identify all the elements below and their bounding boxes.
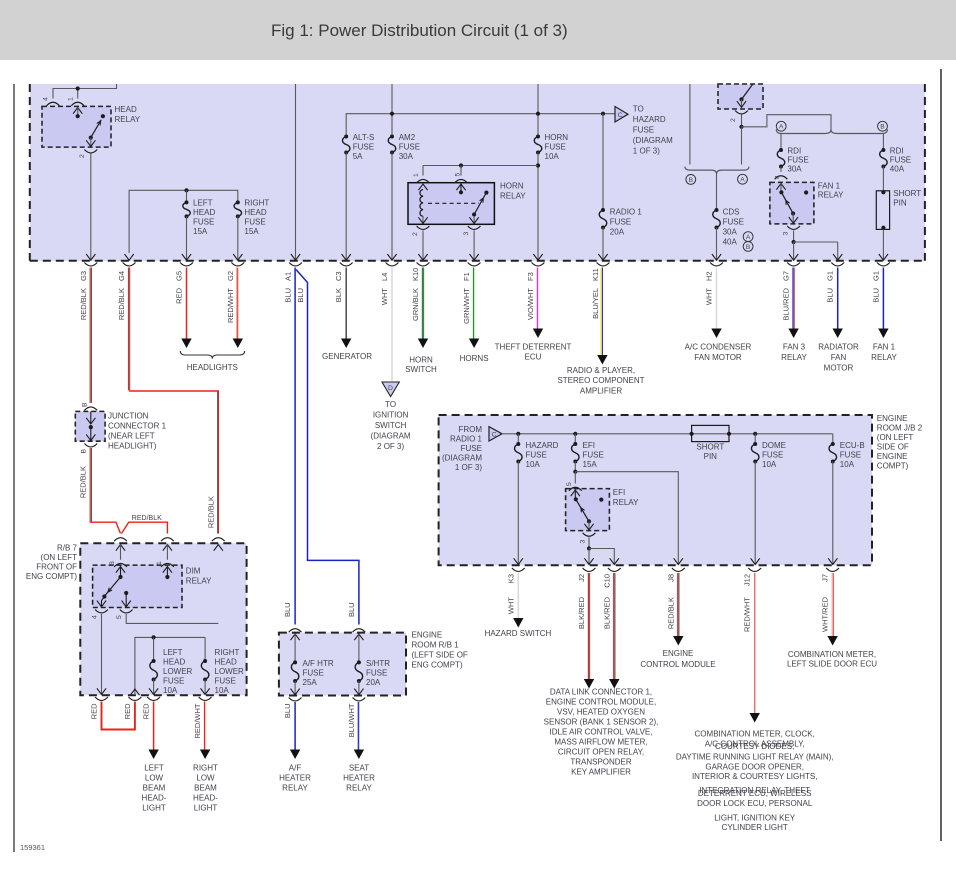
svg-text:SEAT: SEAT [349, 764, 369, 773]
fuse DOME FUSE 10A [754, 434, 756, 444]
wire G5 RED to headlights [186, 268, 188, 339]
svg-text:BEAM: BEAM [194, 784, 217, 793]
svg-text:B: B [746, 244, 751, 251]
svg-text:DAYTIME RUNNING LIGHT RELAY (M: DAYTIME RUNNING LIGHT RELAY (MAIN), [676, 753, 834, 762]
svg-text:RED/BLK: RED/BLK [206, 496, 215, 528]
svg-text:ROOM J/B 2: ROOM J/B 2 [877, 424, 923, 433]
svg-text:RELAY: RELAY [115, 115, 141, 124]
svg-text:BLU/WHT: BLU/WHT [347, 703, 356, 737]
svg-text:RIGHT: RIGHT [215, 648, 240, 657]
fuse CDS FUSE 30A/40A [716, 174, 718, 210]
horn relay switch [472, 212, 476, 216]
svg-text:Fig 1: Power Distribution Circ: Fig 1: Power Distribution Circuit (1 of … [271, 21, 568, 40]
left page border [13, 84, 15, 852]
wire J12 RED/WHT [754, 573, 756, 713]
svg-text:BLU: BLU [284, 288, 293, 303]
wire K11 BLU/YEL to radio [600, 268, 602, 356]
svg-text:D: D [388, 385, 393, 392]
svg-text:10A: 10A [840, 460, 855, 469]
svg-text:30A: 30A [787, 165, 802, 174]
relay EFI RELAY [566, 489, 610, 531]
svg-text:3: 3 [783, 232, 790, 236]
svg-text:RED: RED [175, 287, 184, 303]
svg-text:FUSE: FUSE [215, 677, 236, 686]
wire efi out split [588, 537, 590, 548]
svg-text:ECU-B: ECU-B [840, 441, 865, 450]
svg-text:RED: RED [90, 703, 99, 719]
svg-text:FAN 1: FAN 1 [818, 182, 841, 191]
svg-text:FAN MOTOR: FAN MOTOR [694, 353, 742, 362]
svg-text:TO: TO [385, 400, 396, 409]
svg-text:SIDE OF: SIDE OF [877, 443, 909, 452]
svg-text:159361: 159361 [20, 843, 45, 852]
svg-text:J12: J12 [743, 574, 752, 586]
svg-text:HEAD: HEAD [163, 658, 185, 667]
svg-text:LEFT: LEFT [163, 648, 183, 657]
fuse LEFT HEAD FUSE 15A [183, 202, 191, 216]
svg-text:LEFT SLIDE DOOR ECU: LEFT SLIDE DOOR ECU [787, 660, 877, 669]
svg-text:RADIO & PLAYER,: RADIO & PLAYER, [567, 366, 635, 375]
wire J2 BLK/RED [587, 573, 589, 679]
svg-text:4: 4 [774, 175, 781, 179]
svg-text:3: 3 [109, 561, 116, 565]
fuse RIGHT HEAD LOWER FUSE 10A [204, 637, 206, 661]
svg-text:BEAM: BEAM [143, 784, 166, 793]
top power-distribution box [30, 84, 925, 261]
wire A1 feed [295, 84, 297, 260]
svg-text:30A: 30A [723, 228, 738, 237]
svg-text:LIGHT: LIGHT [194, 804, 218, 813]
svg-text:FUSE: FUSE [163, 677, 184, 686]
svg-text:ENGINE: ENGINE [663, 649, 694, 658]
wire fan1 out split [793, 231, 795, 243]
svg-text:ENGINE: ENGINE [877, 452, 908, 461]
svg-text:FUSE: FUSE [723, 218, 744, 227]
svg-text:FUSE: FUSE [890, 156, 911, 165]
svg-text:DATA LINK CONNECTOR 1,: DATA LINK CONNECTOR 1, [550, 688, 652, 697]
fuse RIGHT HEAD FUSE 15A [234, 202, 242, 216]
svg-text:10A: 10A [762, 460, 777, 469]
svg-text:TO: TO [633, 105, 644, 114]
svg-text:COMBINATION METER,: COMBINATION METER, [788, 650, 876, 659]
svg-text:MASS AIRFLOW METER,: MASS AIRFLOW METER, [554, 738, 647, 747]
svg-text:RIGHT: RIGHT [244, 199, 269, 208]
svg-text:10A: 10A [545, 152, 560, 161]
svg-text:COMBINATION METER, CLOCK,: COMBINATION METER, CLOCK, [695, 730, 815, 739]
svg-text:B: B [689, 177, 694, 184]
svg-text:RED/WHT: RED/WHT [743, 597, 752, 632]
svg-text:20A: 20A [610, 228, 625, 237]
short pin (J/B2) [692, 425, 729, 441]
right page border [940, 69, 942, 841]
wire G4 RED/BLK to R/B7 [128, 268, 130, 391]
relay DIM RELAY [93, 565, 182, 607]
dim relay switch [104, 577, 120, 596]
wire L4 WHT to ignition switch [391, 268, 393, 382]
svg-text:2: 2 [412, 232, 419, 236]
svg-text:LEFT: LEFT [193, 199, 213, 208]
svg-text:GRN/WHT: GRN/WHT [462, 288, 471, 324]
svg-text:DIM: DIM [186, 567, 201, 576]
svg-text:JUNCTION: JUNCTION [108, 412, 149, 421]
svg-text:BLK: BLK [334, 288, 343, 302]
svg-text:INTERIOR & COURTESY LIGHTS,: INTERIOR & COURTESY LIGHTS, [692, 772, 818, 781]
svg-text:FUSE: FUSE [610, 218, 631, 227]
svg-text:G5: G5 [175, 271, 184, 281]
svg-text:FUSE: FUSE [353, 143, 374, 152]
svg-text:RED/BLK: RED/BLK [78, 466, 87, 498]
wire step to RDI brace [742, 115, 832, 130]
svg-text:HEAD: HEAD [244, 208, 266, 217]
svg-text:LEFT: LEFT [144, 764, 164, 773]
wire G3 RED/BLK to junction connector [89, 268, 91, 404]
svg-text:CDS: CDS [723, 208, 740, 217]
wire main bus [346, 114, 615, 136]
wire dim pin5 to third pin [126, 614, 218, 623]
wire K10 GRN/BLK to horn switch [421, 268, 423, 339]
svg-text:SENSOR (BANK 1 SENSOR 2),: SENSOR (BANK 1 SENSOR 2), [544, 718, 659, 727]
svg-text:RED: RED [142, 703, 151, 719]
svg-text:FAN: FAN [831, 353, 847, 362]
svg-text:B: B [880, 124, 885, 131]
ENGINE ROOM R/B 1 box [279, 633, 406, 696]
svg-text:10A: 10A [526, 460, 541, 469]
connector into R/B7 [116, 545, 125, 551]
svg-text:RELAY: RELAY [186, 577, 212, 586]
wire BLU/WHT to seat heater relay [357, 702, 359, 750]
wire horn relay feed [423, 165, 538, 167]
fuse A/F HTR FUSE 25A [291, 662, 299, 681]
svg-text:40A: 40A [890, 165, 905, 174]
svg-text:1 OF 3): 1 OF 3) [633, 147, 660, 156]
svg-text:3: 3 [463, 232, 470, 236]
wire J7 WHT/RED to combination meter [831, 573, 833, 636]
svg-text:BLK/RED: BLK/RED [602, 596, 611, 629]
svg-text:FAN 3: FAN 3 [783, 343, 806, 352]
wire J8 RED/BLK to engine control module [677, 573, 679, 636]
svg-text:ROOM R/B 1: ROOM R/B 1 [412, 641, 460, 650]
svg-text:HORN: HORN [545, 133, 569, 142]
wire RED/WHT to right low beam [204, 702, 206, 750]
svg-text:RED/BLK: RED/BLK [117, 288, 126, 320]
svg-text:ENGINE: ENGINE [877, 414, 908, 423]
brace CDS A/B merge [685, 167, 749, 174]
svg-text:(ON LEFT: (ON LEFT [41, 553, 78, 562]
svg-text:DETERRENT ECU, WIRELESS: DETERRENT ECU, WIRELESS [698, 789, 812, 798]
svg-text:BLU/RED: BLU/RED [782, 287, 791, 320]
svg-text:C10: C10 [602, 574, 611, 588]
svg-text:2: 2 [79, 154, 86, 158]
pin 2 of partial relay [741, 115, 743, 127]
svg-text:RDI: RDI [787, 147, 801, 156]
svg-text:RED/BLK: RED/BLK [132, 515, 162, 522]
svg-text:LOWER: LOWER [215, 667, 245, 676]
svg-text:LIGHT: LIGHT [142, 804, 166, 813]
svg-text:15A: 15A [193, 227, 208, 236]
svg-text:BLU: BLU [826, 288, 835, 303]
junction connector JUNCTION CONNECTOR 1 [75, 411, 105, 441]
svg-text:LOW: LOW [145, 774, 164, 783]
svg-text:ENG COMPT): ENG COMPT) [26, 572, 77, 581]
svg-text:CIRCUIT OPEN RELAY,: CIRCUIT OPEN RELAY, [558, 748, 644, 757]
svg-text:RELAY: RELAY [613, 498, 639, 507]
svg-text:A: A [779, 124, 784, 131]
wire G1 BLU to radiator fan motor [837, 268, 839, 330]
wire CDS feeds [689, 84, 691, 165]
svg-text:H2: H2 [705, 271, 714, 281]
svg-text:GRN/BLK: GRN/BLK [411, 288, 420, 321]
wire H2 WHT to a/c condenser fan motor [716, 268, 718, 330]
svg-text:15A: 15A [244, 227, 259, 236]
svg-text:IGNITION: IGNITION [373, 411, 409, 420]
svg-text:HAZARD: HAZARD [526, 441, 559, 450]
svg-text:1 OF 3): 1 OF 3) [455, 463, 482, 472]
svg-text:5: 5 [455, 173, 462, 177]
svg-text:HEADLIGHT): HEADLIGHT) [108, 442, 157, 451]
svg-text:RELAY: RELAY [781, 353, 807, 362]
svg-text:J8: J8 [666, 574, 675, 582]
svg-text:4: 4 [43, 97, 50, 101]
svg-text:G7: G7 [782, 271, 791, 281]
svg-text:FUSE: FUSE [633, 126, 654, 135]
svg-text:RELAY: RELAY [346, 784, 372, 793]
svg-text:SHORT: SHORT [696, 443, 724, 452]
svg-text:A/F HTR: A/F HTR [303, 659, 334, 668]
svg-text:FROM: FROM [458, 425, 482, 434]
svg-text:DOOR LOCK ECU, PERSONAL: DOOR LOCK ECU, PERSONAL [697, 799, 813, 808]
connector into R/B7 [163, 545, 172, 551]
svg-text:(ON LEFT: (ON LEFT [877, 433, 914, 442]
svg-text:FAN 1: FAN 1 [873, 343, 896, 352]
svg-text:4: 4 [92, 615, 99, 619]
svg-text:RED/BLK: RED/BLK [79, 288, 88, 320]
svg-text:LOW: LOW [196, 774, 215, 783]
svg-text:HEAD: HEAD [193, 208, 215, 217]
svg-text:HORN: HORN [409, 356, 433, 365]
svg-text:G1: G1 [871, 271, 880, 281]
svg-text:CONTROL MODULE: CONTROL MODULE [640, 660, 715, 669]
svg-text:BLU: BLU [347, 602, 356, 617]
relay HEAD RELAY [42, 106, 111, 147]
svg-text:2: 2 [730, 118, 737, 122]
svg-text:20A: 20A [366, 678, 381, 687]
svg-text:F1: F1 [462, 272, 471, 281]
svg-text:1: 1 [156, 561, 163, 565]
svg-text:GARAGE DOOR OPENER,: GARAGE DOOR OPENER, [705, 763, 804, 772]
svg-text:RELAY: RELAY [500, 192, 526, 201]
efi relay pin 5 [574, 472, 576, 484]
fuse AM2 FUSE 30A [388, 137, 396, 153]
svg-text:WHT: WHT [506, 597, 515, 614]
svg-text:RELAY: RELAY [282, 784, 308, 793]
svg-text:DOME: DOME [762, 441, 786, 450]
svg-text:B: B [81, 449, 88, 454]
svg-text:SWITCH: SWITCH [375, 421, 407, 430]
svg-text:L4: L4 [380, 273, 389, 281]
svg-text:EFI: EFI [583, 441, 595, 450]
svg-text:WHT: WHT [380, 288, 389, 305]
svg-text:25A: 25A [303, 678, 318, 687]
svg-text:ECU: ECU [525, 353, 542, 362]
svg-text:COMPT): COMPT) [877, 462, 909, 471]
svg-text:(DIAGRAM: (DIAGRAM [633, 136, 673, 145]
svg-text:10A: 10A [163, 686, 178, 695]
svg-text:AMPLIFIER: AMPLIFIER [580, 387, 622, 396]
wire K3 WHT to hazard switch [517, 573, 519, 618]
svg-text:FUSE: FUSE [193, 218, 214, 227]
svg-text:R/B 7: R/B 7 [57, 544, 78, 553]
fuse ECU-B FUSE 10A [829, 444, 837, 462]
svg-text:RADIO 1: RADIO 1 [610, 208, 643, 217]
svg-text:K10: K10 [411, 268, 420, 281]
svg-text:G2: G2 [226, 271, 235, 281]
fuse HAZARD FUSE 10A [517, 434, 519, 444]
svg-text:ENGINE CONTROL MODULE,: ENGINE CONTROL MODULE, [546, 698, 656, 707]
wire A1 BLU pair split [294, 268, 296, 625]
connector triangle C from radio 1 fuse [489, 427, 502, 441]
svg-text:C3: C3 [334, 271, 343, 281]
svg-text:RIGHT: RIGHT [193, 764, 218, 773]
R/B 7 box [80, 543, 246, 695]
wire J/B2 bus [502, 433, 833, 435]
svg-text:(NEAR LEFT: (NEAR LEFT [108, 432, 155, 441]
fuse ALT-S FUSE 5A [342, 137, 350, 153]
svg-text:HAZARD SWITCH: HAZARD SWITCH [485, 629, 552, 638]
svg-text:SHORT: SHORT [893, 189, 921, 198]
wire pin2 to G3 [90, 154, 92, 261]
wire dim pin4 down [101, 614, 103, 695]
svg-text:K3: K3 [506, 574, 515, 583]
wire G2 RED/WHT to headlights [236, 268, 238, 339]
svg-text:5: 5 [566, 482, 573, 486]
svg-text:A/C CONDENSER: A/C CONDENSER [685, 343, 752, 352]
svg-text:FUSE: FUSE [399, 143, 420, 152]
svg-text:RDI: RDI [890, 147, 904, 156]
svg-text:KEY AMPLIFIER: KEY AMPLIFIER [571, 768, 631, 777]
svg-text:A: A [740, 177, 745, 184]
svg-text:C: C [492, 432, 497, 439]
svg-text:B: B [82, 402, 89, 407]
svg-text:PIN: PIN [893, 199, 907, 208]
svg-text:RELAY: RELAY [818, 191, 844, 200]
svg-text:HEAD-: HEAD- [142, 794, 167, 803]
svg-text:HORNS: HORNS [460, 354, 489, 363]
svg-text:FUSE: FUSE [244, 218, 265, 227]
svg-text:FUSE: FUSE [366, 669, 387, 678]
svg-text:VIO/WHT: VIO/WHT [526, 288, 535, 320]
svg-text:GENERATOR: GENERATOR [322, 352, 372, 361]
svg-text:IDLE AIR CONTROL VALVE,: IDLE AIR CONTROL VALVE, [550, 728, 653, 737]
wire junction to R/B7 pin [89, 448, 91, 523]
svg-text:FUSE: FUSE [583, 451, 604, 460]
fuse RDI FUSE 40A [882, 134, 884, 151]
wire C10 BLK/RED [613, 573, 615, 679]
wire head-relay top bus [53, 84, 117, 99]
horn relay pin 3 [422, 231, 424, 261]
svg-text:ENGINE: ENGINE [412, 631, 443, 640]
svg-text:BLU: BLU [871, 288, 880, 303]
wire RED/BLK link to second pin [122, 522, 168, 533]
svg-text:FUSE: FUSE [787, 156, 808, 165]
svg-text:HEATER: HEATER [279, 774, 311, 783]
svg-text:HEATER: HEATER [343, 774, 375, 783]
svg-text:HEAD: HEAD [215, 658, 237, 667]
svg-text:WHT/RED: WHT/RED [821, 596, 830, 632]
wire G1 BLU to fan 1 relay [882, 268, 884, 330]
wire G7 BLU/RED to fan 3 relay [792, 268, 794, 330]
svg-text:3: 3 [580, 540, 587, 544]
wire C3 BLK to generator [345, 268, 347, 339]
svg-text:LIGHT, IGNITION KEY: LIGHT, IGNITION KEY [714, 814, 796, 823]
svg-text:CYLINDER LIGHT: CYLINDER LIGHT [722, 823, 788, 832]
svg-text:HEAD-: HEAD- [193, 794, 218, 803]
svg-text:HEAD: HEAD [115, 105, 137, 114]
brace HEADLIGHTS [180, 351, 244, 359]
svg-text:1: 1 [67, 97, 74, 101]
fuse RADIO 1 FUSE 20A [599, 210, 607, 228]
ENGINE ROOM J/B 2 box [439, 415, 872, 565]
horn relay coil [420, 190, 423, 217]
svg-text:CONNECTOR 1: CONNECTOR 1 [108, 422, 167, 431]
svg-text:AM2: AM2 [399, 133, 416, 142]
fuse HORN FUSE 10A [534, 137, 542, 153]
svg-text:BLU: BLU [296, 288, 305, 303]
svg-text:K11: K11 [591, 268, 600, 281]
wire head fuse bus [129, 190, 238, 253]
wire F3 VIO/WHT to theft deterrent ecu [536, 268, 538, 330]
svg-text:HORN: HORN [500, 182, 524, 191]
svg-text:FUSE: FUSE [762, 451, 783, 460]
svg-text:RED: RED [123, 703, 132, 719]
svg-text:STEREO COMPONENT: STEREO COMPONENT [557, 376, 644, 385]
svg-text:HAZARD: HAZARD [633, 115, 666, 124]
svg-text:FUSE: FUSE [545, 143, 566, 152]
fuse S/HTR FUSE 20A [355, 662, 363, 681]
svg-text:FUSE: FUSE [461, 444, 482, 453]
svg-text:(LEFT SIDE OF: (LEFT SIDE OF [412, 651, 468, 660]
svg-text:15A: 15A [583, 460, 598, 469]
fuse RDI FUSE 30A [780, 134, 782, 151]
svg-text:G4: G4 [117, 271, 126, 281]
wire RED U-link [102, 702, 135, 730]
svg-text:C: C [618, 112, 623, 119]
svg-text:LOWER: LOWER [163, 667, 193, 676]
svg-text:TRANSPONDER: TRANSPONDER [570, 758, 632, 767]
wire BLU to a/f heater relay [294, 702, 296, 750]
svg-text:FUSE: FUSE [303, 669, 324, 678]
connector into R/B7 [214, 545, 223, 551]
svg-text:RED/WHT: RED/WHT [193, 703, 202, 738]
svg-text:FUSE: FUSE [526, 451, 547, 460]
svg-text:F3: F3 [526, 272, 535, 281]
svg-text:BLU: BLU [283, 704, 292, 719]
svg-text:BLU: BLU [283, 602, 292, 617]
svg-text:RADIATOR: RADIATOR [818, 343, 859, 352]
svg-text:BLK/RED: BLK/RED [577, 596, 586, 629]
svg-text:S/HTR: S/HTR [366, 659, 390, 668]
svg-text:RADIO 1: RADIO 1 [450, 435, 483, 444]
svg-text:40A: 40A [723, 238, 738, 247]
svg-text:30A: 30A [399, 152, 414, 161]
svg-text:1: 1 [413, 173, 420, 177]
svg-text:FRONT OF: FRONT OF [36, 563, 77, 572]
svg-text:G3: G3 [79, 271, 88, 281]
relay FAN 1 RELAY [770, 182, 814, 224]
wire EFI branch to J8 [575, 472, 678, 565]
svg-text:SWITCH: SWITCH [405, 365, 437, 374]
svg-text:BLU/YEL: BLU/YEL [591, 288, 600, 319]
svg-text:WHT: WHT [705, 288, 714, 305]
